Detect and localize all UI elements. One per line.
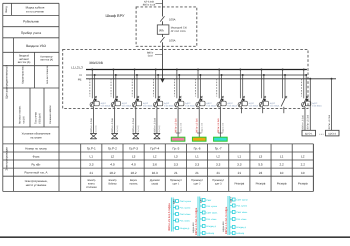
phase busbar xyxy=(86,69,307,71)
svg-text:ВВГнг-LS 5х6: ВВГнг-LS 5х6 xyxy=(196,118,199,133)
svg-text:ВВГнг-LS 3х6: ВВГнг-LS 3х6 xyxy=(111,118,114,133)
svg-text:Гр.Р-2: Гр.Р-2 xyxy=(108,147,117,151)
svg-text:Электропроводки: Электропроводки xyxy=(5,147,9,171)
flat board box 2 xyxy=(326,130,340,136)
svg-text:18.2: 18.2 xyxy=(131,171,137,175)
svg-text:ВВГнг-LS 3х6: ВВГнг-LS 3х6 xyxy=(307,114,310,129)
svg-text:Гр.-7: Гр.-7 xyxy=(215,147,222,151)
svg-text:Свет кухни: Свет кухни xyxy=(236,198,248,201)
svg-text:Гр.-5: Гр.-5 xyxy=(172,147,179,151)
feeder group 4 xyxy=(153,69,174,139)
svg-text:и его сечение: и его сечение xyxy=(26,9,45,13)
feeder group 1 xyxy=(90,69,111,139)
svg-text:21: 21 xyxy=(174,171,178,175)
svg-text:Сечение кабеля: Сечение кабеля xyxy=(49,105,52,124)
feeder group 3 xyxy=(132,69,153,139)
svg-text:Ру, кВт: Ру, кВт xyxy=(31,163,41,167)
svg-text:2х(1х6): 2х(1х6) xyxy=(158,125,161,132)
wire into panel xyxy=(162,42,164,78)
svg-text:C16 30мА: C16 30мА xyxy=(185,105,195,108)
PE busbar xyxy=(86,78,336,80)
svg-text:Расчетный ток, А: Расчетный ток, А xyxy=(25,171,48,175)
svg-text:18.2: 18.2 xyxy=(109,171,115,175)
VRU cabinet dashed box xyxy=(136,7,197,46)
svg-text:ВВГнг-LS 3х1,5 гофра: ВВГнг-LS 3х1,5 гофра xyxy=(225,206,228,234)
svg-text:Кондиц-р: Кондиц-р xyxy=(236,226,246,229)
svg-text:ВВГнг-LS 3х4: ВВГнг-LS 3х4 xyxy=(132,118,135,133)
svg-text:PE: PE xyxy=(78,77,82,81)
svg-text:Характеристика: Характеристика xyxy=(22,65,25,84)
svg-text:Гр.Р-3: Гр.Р-3 xyxy=(129,147,138,151)
svg-text:C16 30мА: C16 30мА xyxy=(312,105,322,108)
svg-text:Щит распределительный: Щит распределительный xyxy=(5,65,9,99)
svg-text:3.3: 3.3 xyxy=(89,163,94,167)
svg-text:гофра d20: гофра d20 xyxy=(222,122,225,133)
input breaker QF0 xyxy=(160,37,164,43)
svg-text:Свет комн.: Свет комн. xyxy=(236,211,248,214)
svg-text:вкл-ток (А): вкл-ток (А) xyxy=(40,59,53,62)
svg-text:L3: L3 xyxy=(174,155,178,159)
svg-text:2х(1х6): 2х(1х6) xyxy=(95,125,98,132)
svg-text:L1: L1 xyxy=(238,155,242,159)
sub-board SB3 xyxy=(222,196,249,235)
svg-text:ЩУЭ-3: ЩУЭ-3 xyxy=(328,133,336,136)
svg-text:3.3: 3.3 xyxy=(195,163,200,167)
svg-text:L3: L3 xyxy=(259,155,263,159)
svg-text:L1: L1 xyxy=(280,155,284,159)
svg-text:Прибор учета: Прибор учета xyxy=(21,31,41,35)
N busbar xyxy=(86,74,307,76)
svg-text:Шкаф ВРУ: Шкаф ВРУ xyxy=(106,14,125,18)
feeder group 10 xyxy=(281,69,287,114)
svg-text:L2: L2 xyxy=(111,155,115,159)
svg-text:Роз. кухни: Роз. кухни xyxy=(206,205,217,208)
svg-text:L1: L1 xyxy=(195,155,199,159)
svg-text:ВВГнг-LS 3х1,5 гофра: ВВГнг-LS 3х1,5 гофра xyxy=(195,207,198,235)
svg-text:Условное обозначение: Условное обозначение xyxy=(22,133,51,136)
svg-text:ВВГнг-LS 5х6: ВВГнг-LS 5х6 xyxy=(217,118,220,133)
feeder group 9 xyxy=(259,69,280,114)
svg-text:ВВГнг-LS 5х6: ВВГнг-LS 5х6 xyxy=(174,118,177,133)
feeder group 2 xyxy=(111,69,132,139)
svg-text:Свет кухни: Свет кухни xyxy=(180,200,192,203)
svg-text:3.6: 3.6 xyxy=(153,163,158,167)
feeder group 6 xyxy=(192,69,216,142)
svg-text:C16 30мА: C16 30мА xyxy=(270,105,280,108)
svg-text:Гр.Р-4: Гр.Р-4 xyxy=(150,147,159,151)
svg-text:4.0: 4.0 xyxy=(131,163,136,167)
svg-text:шкаф: шкаф xyxy=(151,183,158,186)
flat board box 1 xyxy=(302,130,316,136)
svg-text:3.3: 3.3 xyxy=(216,163,221,167)
svg-text:C16 30мА: C16 30мА xyxy=(143,105,153,108)
svg-text:гофра d20: гофра d20 xyxy=(179,122,182,133)
svg-text:L3: L3 xyxy=(132,155,136,159)
svg-text:100А: 100А xyxy=(169,17,176,21)
svg-text:панель: панель xyxy=(129,183,138,186)
svg-text:ЩК-3: ЩК-3 xyxy=(229,196,232,202)
sheet frame line xyxy=(0,236,350,238)
svg-text:100А: 100А xyxy=(169,38,176,42)
svg-text:Гр.Р-1: Гр.Р-1 xyxy=(87,147,96,151)
svg-text:L1: L1 xyxy=(90,155,94,159)
svg-text:C16 30мА: C16 30мА xyxy=(101,105,111,108)
svg-text:Бойлер: Бойлер xyxy=(236,232,245,235)
feeder group 8 xyxy=(238,69,259,114)
svg-text:▪ ▪ ▪: ▪ ▪ ▪ xyxy=(319,133,323,136)
svg-text:щит 1: щит 1 xyxy=(173,183,180,186)
svg-text:Резерв: Резерв xyxy=(234,181,244,185)
svg-text:Wh: Wh xyxy=(159,29,164,33)
svg-text:Электроприемник,: Электроприемник, xyxy=(24,180,47,183)
svg-text:Гр.-6: Гр.-6 xyxy=(194,147,201,151)
svg-text:5х10: 5х10 xyxy=(148,55,154,58)
outgoing riser wire 1 xyxy=(309,79,311,131)
svg-text:2х(1х6): 2х(1х6) xyxy=(116,125,119,132)
svg-text:Бойлер: Бойлер xyxy=(206,232,215,235)
svg-text:вкл-ток (А): вкл-ток (А) xyxy=(18,61,31,64)
svg-text:Свет комн.: Свет комн. xyxy=(206,211,218,214)
sub-board SB1 xyxy=(168,198,192,232)
svg-text:Номер по плану: Номер по плану xyxy=(25,147,47,151)
feeder group 5 xyxy=(171,69,195,142)
svg-text:23: 23 xyxy=(259,171,263,175)
stamp table frame xyxy=(3,3,59,191)
svg-text:Роз. кухни: Роз. кухни xyxy=(236,204,247,207)
svg-text:2.2: 2.2 xyxy=(279,163,284,167)
svg-text:5.5: 5.5 xyxy=(258,163,263,167)
svg-text:21: 21 xyxy=(195,171,199,175)
svg-text:C16 30мА: C16 30мА xyxy=(227,105,237,108)
svg-text:3.3: 3.3 xyxy=(237,163,242,167)
svg-text:на плане: на плане xyxy=(30,136,42,139)
svg-text:ВВГнг-LS 3х6: ВВГнг-LS 3х6 xyxy=(328,114,331,129)
svg-text:C16 30мА: C16 30мА xyxy=(249,105,259,108)
svg-text:Вводное УЗО: Вводное УЗО xyxy=(26,44,46,48)
wire meter to breaker xyxy=(162,35,164,38)
svg-text:L2: L2 xyxy=(216,155,220,159)
svg-text:L1,L2,L3: L1,L2,L3 xyxy=(71,65,83,69)
svg-text:L2: L2 xyxy=(301,155,305,159)
svg-text:Роз. комн.: Роз. комн. xyxy=(206,218,217,221)
svg-text:16.3: 16.3 xyxy=(152,171,158,175)
svg-text:ток (А): ток (А) xyxy=(23,116,26,124)
feeder group 11 xyxy=(301,69,322,131)
svg-text:21: 21 xyxy=(216,171,220,175)
svg-text:Рубильник: Рубильник xyxy=(23,20,39,24)
svg-text:УЗО (мА): УЗО (мА) xyxy=(39,113,42,124)
svg-text:Роз. комн.: Роз. комн. xyxy=(236,218,247,221)
svg-text:Резерв: Резерв xyxy=(298,181,308,185)
svg-text:Кол-во полюсов: Кол-во полюсов xyxy=(46,65,49,84)
svg-text:2.2: 2.2 xyxy=(301,163,306,167)
svg-text:ВВГнг-LS 3х6: ВВГнг-LS 3х6 xyxy=(301,115,304,130)
outgoing riser drop 2 junction xyxy=(331,78,333,80)
svg-text:C16 30мА: C16 30мА xyxy=(206,105,216,108)
svg-text:10: 10 xyxy=(280,171,284,175)
svg-text:ВВГнг 4х16: ВВГнг 4х16 xyxy=(143,4,156,7)
svg-text:ВВГнг-LS 3х1,5 гофра: ВВГнг-LS 3х1,5 гофра xyxy=(168,203,171,231)
svg-text:10: 10 xyxy=(301,171,305,175)
main switch QS1 xyxy=(160,16,164,21)
svg-text:Резерв: Резерв xyxy=(256,181,266,185)
svg-text:Свет: Свет xyxy=(206,199,211,202)
svg-text:2х(1х6): 2х(1х6) xyxy=(137,125,140,132)
svg-text:место установки: место установки xyxy=(26,184,47,187)
feeder group 7 xyxy=(214,69,238,142)
svg-text:ЩК-2: ЩК-2 xyxy=(199,197,202,203)
svg-text:C16 30мА: C16 30мА xyxy=(122,105,132,108)
load table grid xyxy=(3,144,314,192)
svg-text:21: 21 xyxy=(238,171,242,175)
svg-text:Кондиц-р: Кондиц-р xyxy=(180,227,190,230)
svg-text:АТ-01И 100А: АТ-01И 100А xyxy=(171,30,186,33)
svg-text:ВВГнг-LS 3х6: ВВГнг-LS 3х6 xyxy=(90,118,93,133)
svg-text:380/220В: 380/220В xyxy=(89,61,103,65)
svg-text:Свет комн.: Свет комн. xyxy=(180,213,192,216)
distribution panel dashed box xyxy=(63,49,308,108)
outgoing riser drop 1 junction xyxy=(309,78,311,80)
sub-board SB2 xyxy=(192,197,218,237)
svg-text:21: 21 xyxy=(90,171,94,175)
svg-text:гофра d16: гофра d16 xyxy=(222,221,225,232)
svg-text:гофра d20: гофра d20 xyxy=(200,122,203,133)
svg-text:Ввод: Ввод xyxy=(5,6,8,12)
svg-text:4.0: 4.0 xyxy=(110,163,115,167)
outgoing riser wire 2 xyxy=(331,79,333,131)
svg-text:бойлер: бойлер xyxy=(108,183,117,186)
svg-text:C16 30мА: C16 30мА xyxy=(164,105,174,108)
svg-text:L2: L2 xyxy=(153,155,157,159)
svg-text:Ток утечки: Ток утечки xyxy=(35,111,38,124)
incoming supply wire xyxy=(162,0,164,17)
svg-text:гофра d16: гофра d16 xyxy=(192,222,195,233)
svg-text:щит 2: щит 2 xyxy=(194,183,201,186)
svg-text:Роз. кухни: Роз. кухни xyxy=(180,206,191,209)
svg-text:столовая: столовая xyxy=(86,186,97,189)
svg-text:щит 3: щит 3 xyxy=(215,183,222,186)
svg-text:Автомат номин.: Автомат номин. xyxy=(19,105,22,124)
svg-text:ЩУЭ-1: ЩУЭ-1 xyxy=(305,133,313,136)
meter Wh xyxy=(157,25,169,34)
svg-text:Резерв: Резерв xyxy=(277,181,287,185)
svg-text:ЩК-1: ЩК-1 xyxy=(173,198,176,204)
feed arrow xyxy=(160,78,165,83)
svg-text:Фаза: Фаза xyxy=(33,155,40,159)
svg-text:Кондиц-р: Кондиц-р xyxy=(206,225,216,228)
svg-text:3.3: 3.3 xyxy=(174,163,179,167)
svg-text:Роз. комн.: Роз. комн. xyxy=(180,219,191,222)
svg-text:ВВГнг-LS 3х4: ВВГнг-LS 3х4 xyxy=(153,118,156,133)
